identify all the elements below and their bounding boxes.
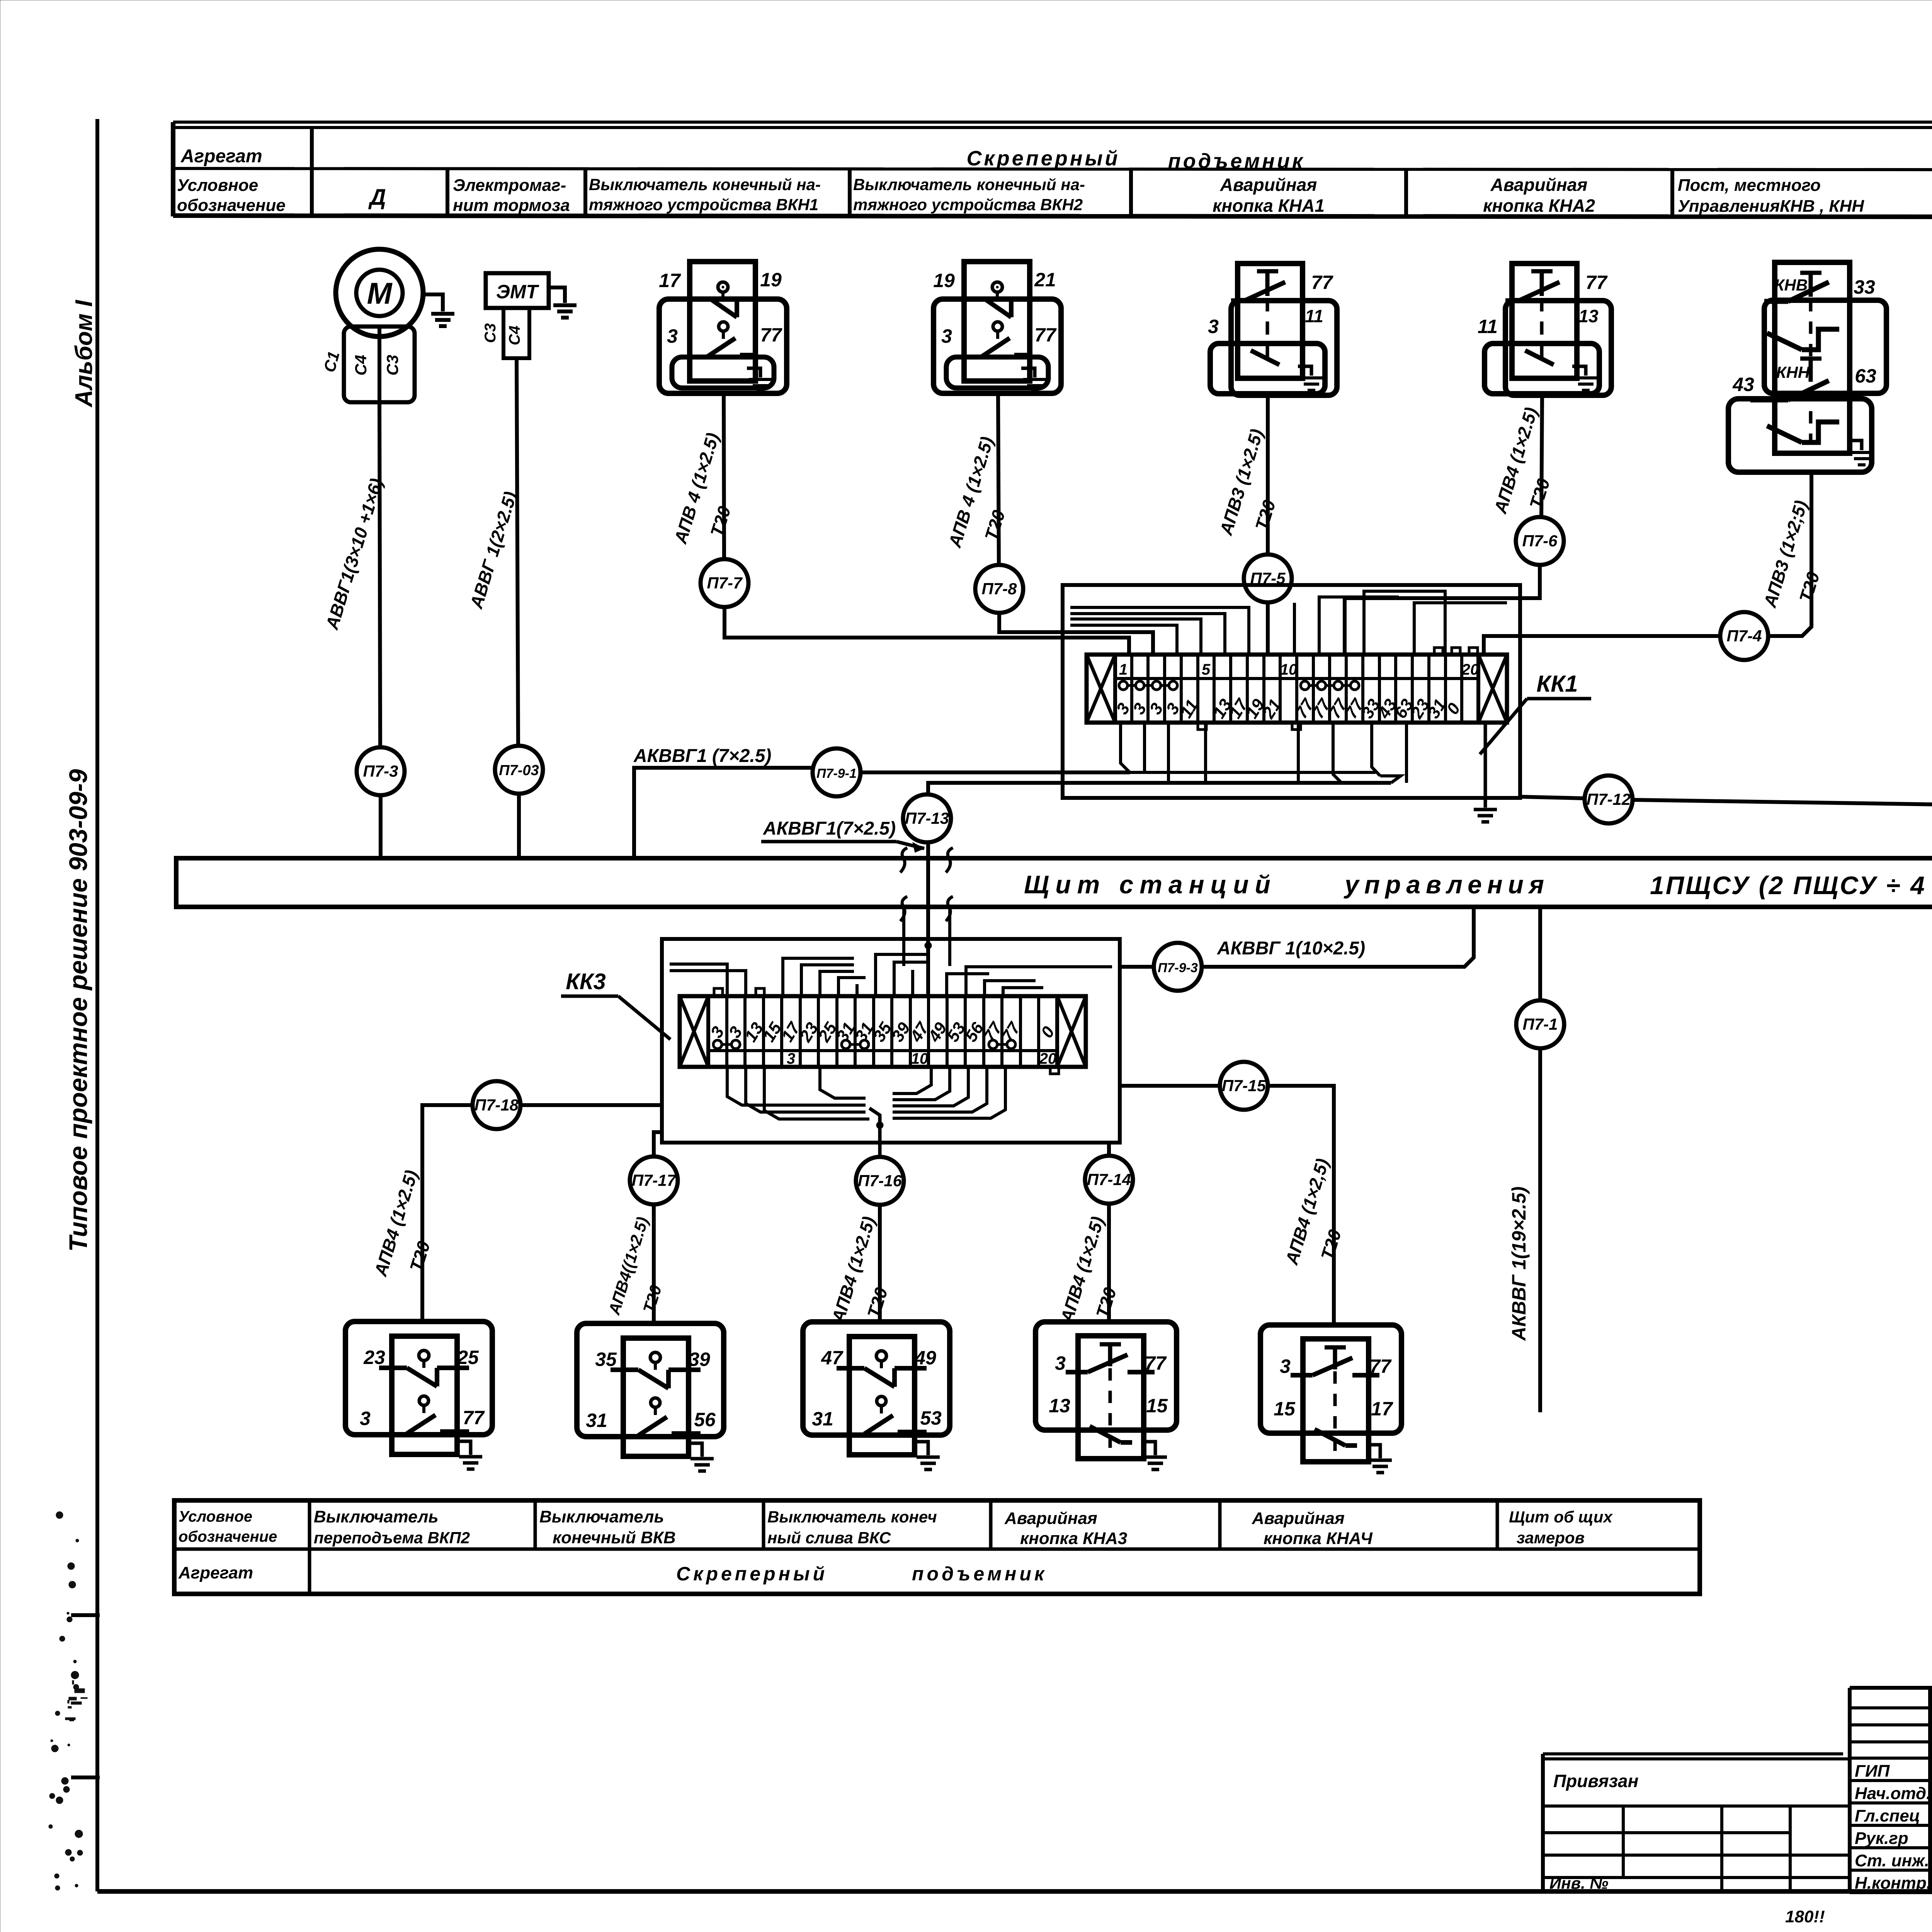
- КК1 ground: [1484, 723, 1487, 808]
- svg-text:ГИП: ГИП: [1855, 1762, 1890, 1781]
- svg-text:подъемник: подъемник: [912, 1563, 1047, 1585]
- tag П7-9-1: [813, 748, 861, 796]
- tag П7-4: [1720, 612, 1768, 660]
- tag П7-03: [495, 746, 543, 794]
- svg-text:подъемник: подъемник: [1168, 150, 1305, 173]
- wire bus to П7-1: [1538, 907, 1542, 1000]
- svg-text:Аварийная: Аварийная: [1220, 175, 1317, 195]
- wire П7-4 to КК1: [1484, 636, 1720, 655]
- motor Д outer circle: [336, 249, 423, 337]
- wire КНА1 to П7-5: [1266, 395, 1270, 554]
- svg-text:3: 3: [1055, 1352, 1066, 1374]
- svg-text:53: 53: [920, 1407, 942, 1429]
- КК3 lower wire bundle: [727, 1067, 866, 1105]
- wire П7-5 to КК1: [1266, 602, 1270, 655]
- svg-text:Агрегат: Агрегат: [180, 146, 262, 167]
- wire П7-17 to ВКВ: [652, 1204, 656, 1323]
- svg-text:АКВВГ1 (7×2.5): АКВВГ1 (7×2.5): [633, 746, 771, 766]
- svg-text:обозначение: обозначение: [179, 1528, 277, 1545]
- svg-text:переподъема ВКП2: переподъема ВКП2: [314, 1529, 470, 1547]
- svg-text:тяжного устройства ВКН2: тяжного устройства ВКН2: [853, 196, 1083, 214]
- svg-text:77: 77: [1034, 324, 1057, 346]
- svg-text:замеров: замеров: [1517, 1529, 1585, 1547]
- svg-text:С3: С3: [383, 355, 401, 376]
- wire П7-8 to КК1: [999, 613, 1153, 655]
- title block Привязан box: [1543, 1752, 1843, 1755]
- svg-text:56: 56: [694, 1409, 716, 1430]
- tag П7-7: [701, 559, 748, 607]
- wire КНА2 to П7-6: [1541, 395, 1542, 517]
- electromagnet brake ЭМТ box: [486, 273, 549, 308]
- svg-text:Электромаг-: Электромаг-: [453, 176, 566, 195]
- svg-text:П7-13: П7-13: [905, 809, 949, 827]
- svg-text:АКВВГ 1(10×2.5): АКВВГ 1(10×2.5): [1217, 938, 1365, 959]
- top table column dividers: [310, 128, 314, 216]
- svg-text:Н.контр.: Н.контр.: [1855, 1874, 1931, 1893]
- КК3 terminal strip: [680, 996, 1086, 1067]
- svg-text:Выключатель конечный на-: Выключатель конечный на-: [853, 175, 1085, 194]
- КК3 enclosure box: [662, 939, 1120, 1143]
- КК1 enclosure box: [1063, 585, 1520, 798]
- svg-text:31: 31: [586, 1410, 607, 1431]
- svg-text:23: 23: [363, 1347, 385, 1368]
- wire П7-3 to bus: [379, 795, 383, 858]
- wire КК3 to П7-18: [521, 1103, 662, 1107]
- svg-text:ный слива ВКС: ный слива ВКС: [767, 1529, 891, 1547]
- tag П7-14: [1085, 1156, 1133, 1204]
- svg-text:19: 19: [760, 269, 782, 291]
- svg-text:10: 10: [911, 1050, 929, 1067]
- wire КК3 to П7-9-3: [1120, 965, 1154, 969]
- svg-text:11: 11: [1478, 316, 1498, 337]
- svg-text:20: 20: [1461, 661, 1479, 678]
- wire КК3 to П7-14: [1107, 1143, 1111, 1156]
- svg-text:Д: Д: [368, 185, 386, 210]
- svg-text:управления: управления: [1344, 870, 1549, 899]
- svg-text:Гл.спец: Гл.спец: [1855, 1806, 1920, 1825]
- svg-text:35: 35: [595, 1349, 617, 1370]
- svg-text:33: 33: [1854, 276, 1875, 298]
- wire П7-14 to КНА3: [1107, 1204, 1111, 1322]
- svg-text:3: 3: [787, 1050, 795, 1067]
- svg-text:3: 3: [360, 1408, 371, 1429]
- wire П7-13 up to КК1 bottom line: [928, 783, 1391, 794]
- wire КК3 to П7-17: [654, 1132, 662, 1156]
- wire П7-16 to ВКС: [878, 1205, 882, 1322]
- motor Д terminal box: [344, 327, 415, 402]
- КК1 lower wire bundle: [1121, 723, 1130, 772]
- svg-text:77: 77: [1145, 1352, 1167, 1374]
- svg-text:обозначение: обозначение: [177, 196, 286, 215]
- svg-text:Скреперный: Скреперный: [966, 147, 1120, 170]
- wire КК3 to П7-15: [1120, 1084, 1220, 1088]
- tag П7-13: [903, 794, 951, 842]
- svg-text:21: 21: [1034, 269, 1056, 291]
- svg-text:П7-17: П7-17: [632, 1171, 677, 1189]
- wire КНВ КНН down: [1769, 472, 1811, 636]
- svg-text:Рук.гр: Рук.гр: [1855, 1829, 1908, 1848]
- svg-text:77: 77: [463, 1407, 485, 1429]
- wire АКВВГ1 7х2.5 to П7-9-1: [634, 768, 813, 858]
- drawing frame bottom border line: [97, 1889, 1932, 1894]
- limit switch ВКП2: [345, 1321, 492, 1435]
- tag П7-3: [357, 747, 405, 795]
- svg-text:15: 15: [1274, 1398, 1296, 1420]
- tag П7-15: [1220, 1062, 1268, 1110]
- wire П7-03 to bus: [517, 794, 521, 858]
- wire П7-13 through bus to КК3: [926, 842, 930, 996]
- svg-text:П7-15: П7-15: [1222, 1077, 1266, 1095]
- fold mark tick upper left: [71, 1613, 100, 1617]
- КК1 terminal tabs: [1434, 648, 1443, 655]
- svg-text:11: 11: [1305, 306, 1323, 326]
- КК3 bundle junction: [876, 1122, 883, 1129]
- tag П7-18: [473, 1081, 520, 1129]
- svg-text:Ст. инж.: Ст. инж.: [1855, 1851, 1929, 1870]
- bus bar Щит станций управления: [176, 858, 1932, 907]
- wire bus to КК3 left: [902, 907, 905, 966]
- svg-text:17: 17: [659, 270, 681, 291]
- emergency button КНА4: [1260, 1325, 1401, 1433]
- tag П7-17: [630, 1156, 678, 1204]
- svg-text:КНН: КНН: [1776, 363, 1810, 381]
- scan speckles left margin: [55, 1711, 60, 1716]
- svg-text:1: 1: [1119, 661, 1128, 678]
- svg-text:Нач.отд.: Нач.отд.: [1855, 1784, 1931, 1803]
- svg-text:3: 3: [667, 325, 678, 347]
- svg-text:С4: С4: [352, 355, 370, 376]
- svg-text:Условное: Условное: [179, 1508, 252, 1525]
- wire П7-9-3 to bus: [1202, 907, 1474, 967]
- limit switch ВКВ: [577, 1323, 724, 1437]
- svg-text:П7-1: П7-1: [1523, 1015, 1558, 1033]
- svg-text:31: 31: [812, 1408, 833, 1430]
- svg-text:КК1: КК1: [1536, 671, 1578, 697]
- svg-text:Аварийная: Аварийная: [1490, 175, 1588, 195]
- svg-text:19: 19: [933, 270, 955, 291]
- svg-text:10: 10: [1280, 661, 1298, 678]
- svg-text:13: 13: [1578, 306, 1599, 326]
- svg-text:77: 77: [1585, 272, 1608, 293]
- svg-text:П7-12: П7-12: [1587, 790, 1631, 808]
- tag П7-16: [856, 1157, 904, 1205]
- svg-text:25: 25: [457, 1347, 479, 1368]
- svg-text:нит тормоза: нит тормоза: [453, 196, 570, 215]
- svg-text:П7-9-3: П7-9-3: [1158, 961, 1198, 975]
- svg-text:Привязан: Привязан: [1553, 1771, 1638, 1791]
- svg-text:УправленияКНВ , КНН: УправленияКНВ , КНН: [1678, 197, 1864, 216]
- ЭМТ ground: [549, 287, 565, 303]
- svg-text:П7-6: П7-6: [1522, 532, 1558, 550]
- svg-text:20: 20: [1039, 1050, 1057, 1067]
- emergency button КНА1: [1238, 264, 1303, 378]
- svg-text:77: 77: [760, 324, 782, 346]
- tag П7-5: [1244, 554, 1292, 602]
- svg-text:3: 3: [1208, 316, 1219, 337]
- svg-text:кнопка КНА1: кнопка КНА1: [1213, 196, 1325, 216]
- ЭМТ terminal box: [503, 308, 529, 358]
- limit switch ВКН2: [964, 262, 1030, 381]
- svg-text:кнопка КНА3: кнопка КНА3: [1020, 1529, 1127, 1548]
- limit switch ВКС: [803, 1322, 950, 1435]
- svg-text:17: 17: [1371, 1398, 1393, 1420]
- КК3 upper wire bundle: [670, 964, 727, 996]
- bottom table column dividers: [308, 1500, 311, 1549]
- svg-text:Аварийная: Аварийная: [1252, 1509, 1345, 1528]
- svg-text:Щит об щих: Щит об щих: [1509, 1508, 1613, 1526]
- tag П7-12: [1585, 776, 1633, 823]
- svg-text:Выключатель: Выключатель: [539, 1507, 664, 1526]
- svg-text:5: 5: [1202, 661, 1211, 678]
- svg-text:П7-18: П7-18: [474, 1096, 519, 1114]
- svg-text:39: 39: [689, 1349, 710, 1370]
- svg-text:Альбом I: Альбом I: [71, 299, 97, 408]
- svg-text:П7-7: П7-7: [707, 574, 743, 592]
- svg-text:П7-16: П7-16: [858, 1172, 902, 1190]
- wire П7-7 to КК1: [724, 607, 1129, 655]
- wire ВКН2 to П7-8: [998, 393, 999, 565]
- tag П7-6: [1516, 517, 1564, 565]
- svg-text:15: 15: [1146, 1395, 1168, 1417]
- wire П7-15 to КНА4: [1268, 1086, 1334, 1325]
- svg-text:Агрегат: Агрегат: [178, 1563, 253, 1582]
- title block signature grid: [1848, 1688, 1852, 1893]
- svg-text:Условное: Условное: [177, 176, 258, 195]
- svg-text:63: 63: [1855, 365, 1876, 387]
- svg-text:43: 43: [1732, 374, 1754, 395]
- КК1 upper wire bundle: [1070, 625, 1177, 655]
- svg-text:П7-3: П7-3: [363, 762, 398, 780]
- svg-text:77: 77: [1369, 1355, 1392, 1377]
- svg-text:КНВ: КНВ: [1774, 276, 1808, 294]
- emergency button КНА3: [1036, 1322, 1177, 1430]
- svg-text:П7-8: П7-8: [982, 580, 1017, 598]
- bus crossing break marks: [900, 848, 907, 872]
- wire motor to П7-3: [379, 402, 380, 747]
- wire КК3 to П7-16: [878, 1155, 882, 1159]
- svg-text:Выключатель конечный на-: Выключатель конечный на-: [589, 175, 821, 194]
- fold mark tick lower left: [71, 1776, 100, 1779]
- drawing frame left border line: [95, 119, 99, 1891]
- svg-text:кнопка КНА2: кнопка КНА2: [1483, 196, 1595, 216]
- svg-text:П7-03: П7-03: [499, 762, 539, 779]
- svg-text:77: 77: [1311, 272, 1333, 293]
- wire bus to КК3 right: [948, 907, 951, 966]
- svg-text:Инв. №: Инв. №: [1549, 1874, 1608, 1892]
- svg-text:13: 13: [1049, 1395, 1070, 1417]
- local control post КНВ КНН: [1775, 262, 1850, 453]
- svg-text:АКВВГ1(7×2.5): АКВВГ1(7×2.5): [763, 818, 896, 839]
- КК3 terminal tabs: [714, 988, 723, 996]
- wire ВКН1 to П7-7: [724, 393, 724, 559]
- svg-text:тяжного устройства ВКН1: тяжного устройства ВКН1: [589, 196, 818, 214]
- wire ЭМТ to П7-03: [517, 358, 518, 746]
- svg-text:180!!: 180!!: [1785, 1907, 1825, 1926]
- svg-text:П7-9-1: П7-9-1: [816, 766, 857, 781]
- svg-text:Типовое проектное решени: Типовое проектное решение 903-09-9: [64, 769, 92, 1252]
- svg-text:С4: С4: [506, 325, 523, 345]
- wire П7-9-1 to КК1: [861, 770, 1130, 774]
- svg-text:Выключатель: Выключатель: [314, 1507, 439, 1526]
- top table outer border: [173, 121, 1932, 124]
- svg-text:Скреперный: Скреперный: [676, 1563, 828, 1585]
- motor Д ground: [422, 294, 443, 311]
- svg-text:3: 3: [1280, 1355, 1291, 1377]
- wire П7-1 down Щит общих замеров: [1538, 1048, 1542, 1412]
- svg-text:Пост, местного: Пост, местного: [1678, 176, 1821, 195]
- svg-text:кнопка КНАЧ: кнопка КНАЧ: [1264, 1529, 1373, 1548]
- svg-text:47: 47: [821, 1347, 844, 1369]
- svg-text:1ПЩСУ (2 ПЩСУ ÷ 4 ПЩСУ): 1ПЩСУ (2 ПЩСУ ÷ 4 ПЩСУ): [1650, 871, 1932, 900]
- wire П7-6 to КК1: [1345, 565, 1540, 655]
- svg-text:С3: С3: [482, 323, 499, 343]
- limit switch ВКН1: [690, 262, 755, 381]
- tag П7-9-3: [1154, 943, 1202, 991]
- svg-text:П7-14: П7-14: [1087, 1170, 1131, 1189]
- svg-text:49: 49: [914, 1347, 936, 1369]
- tag П7-1: [1516, 1000, 1564, 1048]
- svg-text:М: М: [367, 276, 393, 310]
- wire КК1 to П7-12 to КК2: [1520, 797, 1584, 798]
- svg-text:КК3: КК3: [566, 969, 606, 994]
- svg-text:АКВВГ 1(19×2.5): АКВВГ 1(19×2.5): [1508, 1186, 1530, 1341]
- svg-text:конечный ВКВ: конечный ВКВ: [553, 1528, 676, 1547]
- svg-text:Выключатель конеч: Выключатель конеч: [767, 1508, 937, 1526]
- bottom table frame: [174, 1500, 1700, 1594]
- tag П7-8: [975, 565, 1023, 613]
- svg-text:Щит станций: Щит станций: [1024, 870, 1277, 899]
- svg-text:ЭМТ: ЭМТ: [496, 281, 540, 303]
- svg-text:3: 3: [941, 325, 952, 347]
- КК1 terminal strip: [1087, 655, 1507, 723]
- svg-text:П7-4: П7-4: [1727, 627, 1762, 645]
- svg-text:Аварийная: Аварийная: [1004, 1509, 1097, 1528]
- emergency button КНА2: [1512, 264, 1577, 378]
- motor Д inner circle with М: [356, 270, 403, 316]
